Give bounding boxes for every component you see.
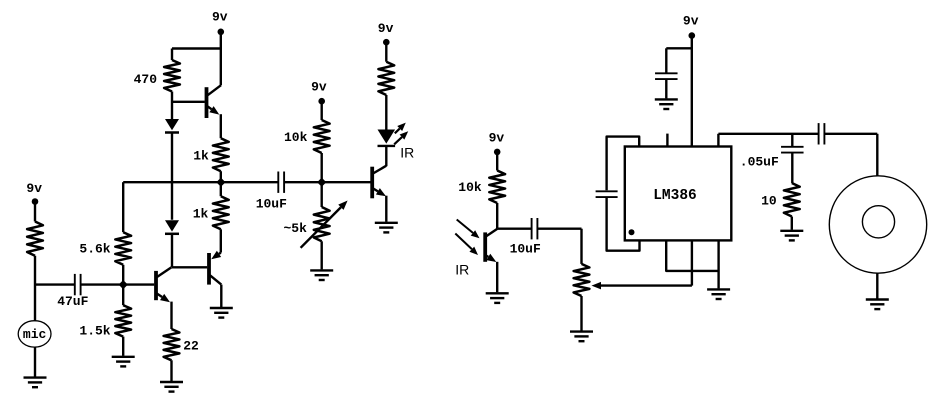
resistor 1k upper	[213, 138, 229, 171]
gain loop wire	[607, 137, 640, 191]
svg-text:.05uF: .05uF	[740, 154, 779, 169]
wire	[825, 133, 878, 135]
ground (phototransistor)	[486, 292, 509, 294]
wire	[34, 202, 36, 222]
wire output	[717, 134, 719, 147]
wire	[220, 285, 222, 307]
wire	[220, 229, 222, 252]
wire	[172, 47, 221, 49]
capacitor 47uF	[74, 274, 76, 295]
svg-text:10uF: 10uF	[510, 241, 541, 256]
wire	[665, 80, 667, 99]
diode D1	[165, 119, 179, 130]
resistor 1k lower	[220, 182, 222, 196]
capacitor .05uF	[781, 146, 804, 148]
resistor LED series	[378, 62, 394, 95]
ground (Q4)	[375, 222, 398, 224]
wire	[170, 302, 172, 329]
zobel branch wire	[791, 134, 793, 146]
wire	[171, 134, 173, 220]
transistor Q4 LED driver	[370, 167, 374, 199]
svg-text:9v: 9v	[311, 80, 327, 95]
capacitor gain 10uF	[596, 190, 618, 192]
wire	[220, 114, 222, 138]
capacitor bypass	[655, 72, 678, 74]
wire	[172, 101, 205, 103]
microphone MIC	[18, 321, 51, 347]
resistor 5.6k	[115, 232, 131, 265]
potentiometer volume	[574, 264, 590, 296]
svg-text:10k: 10k	[284, 130, 308, 145]
wire	[34, 347, 36, 377]
wire	[385, 42, 387, 62]
gain loop wire lower	[607, 198, 640, 251]
svg-text:LM386: LM386	[653, 188, 697, 204]
svg-text:10uF: 10uF	[256, 197, 287, 212]
node main signal junction	[216, 178, 225, 187]
svg-text:9v: 9v	[212, 10, 228, 25]
resistor 22	[164, 329, 180, 360]
svg-text:~5k: ~5k	[283, 221, 307, 236]
resistor 10k (RX)	[489, 171, 505, 204]
ground (Q3)	[210, 307, 233, 309]
wire	[34, 256, 36, 321]
wire	[35, 283, 75, 285]
ground (speaker)	[866, 298, 889, 300]
wire	[876, 273, 878, 298]
wire	[122, 337, 124, 356]
transistor Q2	[154, 271, 158, 300]
wire input bus	[82, 283, 155, 285]
resistor mic bias	[27, 222, 43, 256]
LED arrows	[395, 129, 400, 134]
resistor 470	[164, 60, 180, 92]
svg-text:9v: 9v	[683, 13, 699, 28]
wire	[791, 217, 793, 230]
IR light arrows	[457, 220, 473, 233]
resistor 10k (TX)	[314, 120, 330, 153]
wire	[321, 241, 323, 269]
ground (LM386)	[707, 288, 730, 290]
wire	[220, 32, 222, 85]
svg-text:1k: 1k	[193, 207, 209, 222]
wire	[691, 36, 693, 147]
svg-text:9v: 9v	[26, 181, 42, 196]
svg-text:10: 10	[761, 193, 777, 208]
wire	[321, 101, 323, 120]
svg-text:1k: 1k	[193, 148, 209, 163]
capacitor 10uF (RX)	[531, 218, 533, 239]
ground (zobel)	[780, 230, 803, 232]
ground (22)	[160, 381, 183, 383]
svg-text:mic: mic	[23, 327, 47, 342]
wire bypass branch	[666, 47, 692, 49]
IC LM386	[625, 147, 732, 241]
wire	[496, 152, 498, 171]
ground (mic)	[24, 376, 47, 378]
svg-text:1.5k: 1.5k	[79, 324, 110, 339]
wire	[496, 262, 498, 293]
capacitor 10uF (TX coupling)	[277, 172, 279, 193]
wire	[538, 227, 582, 229]
wire	[497, 227, 531, 229]
potentiometer ~5k	[314, 207, 330, 241]
transistor Q1	[205, 87, 209, 118]
wire main bus right	[285, 181, 371, 183]
wire	[791, 153, 793, 183]
diode D2	[165, 220, 179, 231]
svg-text:IR: IR	[400, 145, 414, 161]
ground (bypass)	[655, 98, 678, 100]
wire	[385, 147, 387, 166]
wire	[385, 95, 387, 130]
ground (1.5k)	[112, 356, 135, 358]
ground (volume pot)	[570, 330, 593, 332]
node input junction	[119, 280, 128, 289]
pin 7 stub	[666, 134, 668, 147]
svg-text:5.6k: 5.6k	[79, 242, 110, 257]
wiper arrow	[601, 284, 692, 286]
wire	[580, 229, 582, 264]
wire	[170, 360, 172, 381]
wire	[220, 171, 222, 182]
ground (pot)	[310, 269, 333, 271]
svg-text:IR: IR	[455, 262, 469, 278]
wire	[171, 235, 173, 268]
svg-text:9v: 9v	[378, 21, 394, 36]
wire	[172, 266, 207, 268]
wire pin3	[691, 240, 693, 285]
pin 4 ground wire	[717, 240, 719, 288]
resistor 10	[784, 183, 800, 217]
wire	[122, 265, 124, 285]
wire	[580, 296, 582, 331]
wire	[171, 92, 173, 120]
wire	[496, 203, 498, 229]
wire	[321, 153, 323, 182]
speaker	[829, 176, 926, 273]
node bias junction	[317, 178, 326, 187]
svg-text:10k: 10k	[458, 180, 482, 195]
wire main bus left	[123, 181, 278, 183]
svg-text:47uF: 47uF	[57, 294, 88, 309]
svg-text:9v: 9v	[489, 130, 505, 145]
capacitor output coupling	[818, 123, 820, 144]
transistor Q3 pnp	[207, 253, 211, 285]
pin 2 ground wire	[666, 240, 718, 271]
wire	[171, 49, 173, 61]
LED IR emitter	[378, 130, 396, 144]
svg-text:470: 470	[134, 72, 158, 87]
wire 5.6k top	[122, 182, 124, 232]
resistor 1.5k	[122, 285, 124, 306]
wire	[385, 196, 387, 222]
svg-text:22: 22	[183, 338, 199, 353]
phototransistor IR	[483, 232, 487, 261]
wire	[321, 182, 323, 207]
pin 1 marker	[629, 229, 635, 235]
